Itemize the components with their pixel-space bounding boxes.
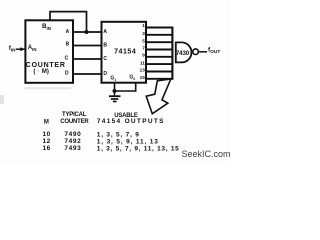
- svg-text:1: 1: [142, 23, 145, 28]
- NAND gate U3 7430 body: [176, 42, 192, 62]
- feedback wire B_IN to node A: [50, 12, 87, 32]
- pin 7 wire: [146, 49, 173, 51]
- scan smudge under counter: [24, 87, 71, 89]
- wire C counter to 74154: [73, 58, 102, 60]
- wire A counter to 74154: [73, 31, 102, 33]
- svg-text:9: 9: [142, 52, 145, 57]
- svg-text:7490: 7490: [64, 131, 81, 138]
- wire B counter to 74154: [73, 45, 102, 47]
- svg-text:COUNTER: COUNTER: [26, 62, 66, 69]
- gate output bubble: [193, 49, 199, 55]
- svg-text:TYPICAL: TYPICAL: [62, 112, 87, 118]
- wire G2 to ground node: [115, 83, 136, 91]
- svg-text:C: C: [65, 56, 69, 62]
- svg-text:A: A: [103, 29, 107, 35]
- svg-text:COUNTER: COUNTER: [60, 119, 89, 125]
- decoder U2 74154 box: [102, 22, 147, 83]
- svg-text:7430: 7430: [176, 50, 190, 57]
- svg-text:5: 5: [142, 38, 145, 43]
- svg-text:7492: 7492: [64, 138, 81, 145]
- svg-text:(: (: [33, 69, 35, 75]
- svg-text:12: 12: [43, 138, 51, 145]
- svg-text:7493: 7493: [64, 145, 81, 152]
- svg-text:B: B: [66, 41, 70, 47]
- wire G1 to ground: [114, 83, 116, 91]
- svg-text:÷: ÷: [37, 69, 40, 75]
- svg-text:1, 3, 5, 7, 9, 11, 13, 15: 1, 3, 5, 7, 9, 11, 13, 15: [97, 145, 180, 152]
- svg-text:C: C: [103, 56, 107, 62]
- counter U1 box: [25, 20, 73, 83]
- junction node ground: [113, 89, 117, 93]
- svg-text:1, 3, 5, 7, 9: 1, 3, 5, 7, 9: [97, 131, 140, 138]
- wire gate output: [198, 51, 207, 53]
- svg-text:AIN: AIN: [28, 45, 37, 52]
- pin 5 wire: [146, 41, 173, 43]
- svg-text:M): M): [42, 69, 49, 75]
- svg-text:74154 OUTPUTS: 74154 OUTPUTS: [97, 118, 165, 125]
- svg-text:16: 16: [43, 145, 51, 152]
- svg-text:B: B: [103, 43, 107, 49]
- pin 15 wire: [146, 78, 173, 80]
- pin 1 wire: [146, 27, 173, 29]
- svg-text:13: 13: [140, 68, 146, 73]
- svg-text:15: 15: [140, 75, 146, 80]
- wire f_IN input: [16, 48, 25, 50]
- svg-text:10: 10: [43, 131, 51, 138]
- arrowhead f_IN: [20, 47, 25, 51]
- svg-text:D: D: [103, 71, 107, 77]
- gate input bus: [171, 27, 173, 80]
- svg-text:74154: 74154: [114, 48, 136, 55]
- pin 13 wire: [146, 71, 173, 73]
- svg-text:SeekIC.com: SeekIC.com: [182, 149, 231, 159]
- pin 3 wire: [146, 34, 173, 36]
- svg-text:1, 3, 5, 9, 11, 13: 1, 3, 5, 9, 11, 13: [97, 138, 159, 145]
- ground symbol: [109, 91, 121, 102]
- svg-text:11: 11: [140, 60, 145, 65]
- svg-text:3: 3: [142, 31, 145, 36]
- pin 11 wire: [146, 63, 173, 65]
- svg-text:D: D: [65, 71, 69, 77]
- pin 9 wire: [146, 56, 173, 58]
- svg-text:7: 7: [142, 45, 145, 50]
- wire D counter to 74154: [73, 73, 102, 75]
- svg-text:M: M: [44, 119, 49, 125]
- scan smudge left: [0, 95, 4, 104]
- big hollow arrow pointing to table: [146, 79, 171, 114]
- svg-text:A: A: [66, 29, 70, 35]
- junction node on wire A: [85, 30, 89, 34]
